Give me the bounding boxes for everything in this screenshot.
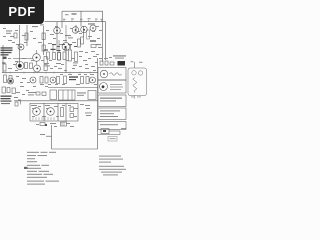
note block lower-left line 3 [1, 101, 12, 102]
wire right rail drop [102, 11, 104, 62]
value label speck 11 [63, 39, 67, 42]
switch S1 [61, 108, 64, 117]
tube socket box [128, 68, 147, 96]
wire driver b [58, 40, 60, 52]
resistor R24 [86, 77, 89, 84]
label top mid [88, 23, 95, 24]
resistor R11 [58, 53, 61, 61]
value label speck 20 [92, 30, 95, 33]
value label speck 3 [80, 18, 83, 21]
value label speck 32 [8, 57, 11, 60]
value label speck 74 [68, 73, 72, 76]
value label speck 109 [12, 41, 15, 44]
wire second supply rail [45, 21, 106, 23]
transistor Q3 [81, 26, 88, 33]
value label speck 24 [98, 46, 102, 49]
value label speck 98 [80, 103, 84, 106]
value label speck 82 [48, 83, 51, 86]
label value 56K [56, 63, 61, 64]
value label speck 33 [13, 63, 16, 66]
value label speck 19 [88, 35, 92, 38]
value label speck 15 [59, 43, 62, 46]
panel divider 3 [65, 103, 67, 121]
value label speck 79 [62, 83, 65, 86]
label gain [8, 40, 12, 41]
value label speck 64 [27, 81, 30, 84]
tube top labels [131, 60, 134, 63]
value label speck 83 [32, 107, 36, 110]
value label speck 42 [66, 59, 69, 62]
resistor R15 [81, 37, 84, 44]
resistor R12 [63, 52, 66, 60]
note text block line 2 [1, 50, 13, 51]
value label speck 44 [79, 55, 82, 58]
rail component ticks [63, 20, 65, 22]
value label speck 13 [72, 41, 76, 44]
resistor R2 [42, 33, 45, 40]
value label speck 85 [46, 107, 49, 110]
label beside note [14, 97, 18, 98]
label drv2 [57, 46, 60, 47]
label R11 value [57, 50, 61, 51]
value label speck 93 [74, 115, 77, 118]
value label speck 46 [88, 57, 91, 60]
label fuse [100, 124, 118, 125]
power box AC [98, 95, 126, 107]
wire drop stage 1 [56, 22, 58, 50]
note right line 3 [99, 162, 111, 163]
legend marker NB [24, 167, 28, 169]
capacitor C6 [7, 88, 10, 93]
value label speck 94 [66, 122, 70, 125]
label corner [40, 134, 45, 135]
legend line 10 [27, 181, 44, 182]
diode D2 [105, 61, 108, 65]
note block lower-left line 4 [1, 103, 10, 104]
resistor R7 [44, 65, 47, 71]
switch box S2 [101, 129, 109, 134]
PDF badge [0, 0, 44, 24]
note right line 4 [99, 166, 124, 167]
value label speck 17 [55, 25, 58, 28]
capacitor C3 [36, 92, 40, 95]
value label speck 75 [78, 73, 81, 76]
wire left drop under badge 2 [26, 25, 28, 46]
wire plug drop [98, 134, 120, 136]
capacitor C4 [42, 92, 46, 96]
legend line 11 [27, 184, 45, 185]
value label speck 60 [91, 50, 95, 53]
value label speck 57 [93, 69, 96, 72]
value label speck 9 [53, 37, 56, 40]
value label speck 68 [40, 83, 44, 86]
terminal strip ticks [32, 117, 34, 120]
wire drop at node B [80, 11, 82, 26]
output box speaker 2 [98, 80, 126, 93]
resistor R1 [25, 33, 28, 40]
resistor R9 [47, 52, 50, 59]
value label speck 8 [50, 33, 54, 36]
resistor R13 [69, 50, 72, 61]
value label speck 49 [91, 65, 95, 68]
wire Q5 collector [65, 25, 67, 42]
value label speck 63 [22, 77, 26, 80]
wire Q7 top [36, 50, 38, 54]
heater resistor [133, 78, 137, 93]
note right line 7 [103, 174, 118, 175]
value label speck 36 [41, 59, 44, 62]
value label speck 6 [101, 18, 104, 21]
legend line 2 [27, 155, 36, 156]
value label speck 100 [86, 107, 90, 110]
power box mains [98, 108, 126, 120]
value label speck 34 [22, 57, 26, 60]
resistor R18 [45, 77, 48, 83]
resistor R6 [44, 57, 47, 64]
resistor R17 [40, 77, 43, 84]
label mains 3 [100, 116, 118, 117]
transistor Q2 [72, 27, 79, 34]
capacitor C1 [3, 57, 7, 59]
value label speck 47 [93, 55, 97, 58]
value label speck 16 [48, 42, 52, 45]
label R9 value [44, 49, 48, 50]
transistor Q7 [33, 54, 41, 62]
note right line 6 [101, 172, 122, 173]
legend line 3 [27, 158, 35, 159]
label panel 1 [31, 105, 37, 106]
power box fuse [98, 122, 126, 130]
value label speck 56 [85, 67, 89, 70]
value label speck 66 [26, 89, 29, 92]
resistor R23 [81, 77, 84, 84]
value label speck 38 [8, 67, 12, 70]
value label speck 58 [79, 50, 83, 53]
value label speck 22 [99, 29, 102, 32]
transformer T2 [59, 90, 76, 100]
value label speck 90 [32, 115, 35, 118]
value label speck 71 [22, 93, 25, 96]
capacitor C2 [91, 45, 96, 48]
label drv5 [74, 46, 77, 47]
value label speck 104 [104, 57, 108, 60]
resistor R5 [30, 63, 33, 69]
transistor Q5 [62, 43, 70, 51]
value label speck 50 [79, 65, 82, 68]
label bias [90, 40, 96, 41]
transistor Q11 [50, 77, 56, 83]
label AC line 1 [100, 98, 122, 99]
label B+ [40, 24, 44, 25]
resistor R8 [3, 64, 6, 71]
note text block line 4 [1, 54, 9, 55]
component small X2 [14, 33, 17, 38]
capacitor C5 [2, 87, 6, 93]
value label speck 76 [84, 73, 87, 76]
value label speck 25 [15, 29, 18, 32]
value label speck 48 [85, 63, 88, 66]
legend line 1 [27, 152, 39, 153]
value label speck 96 [70, 125, 74, 128]
solder point [45, 124, 47, 126]
value label speck 4 [88, 17, 91, 20]
fuse F1 [70, 107, 74, 112]
legend line 9 [27, 177, 47, 178]
label mains 1 [100, 110, 120, 111]
value label speck 21 [97, 37, 100, 40]
label cap value [65, 35, 71, 36]
value label speck 53 [58, 67, 62, 70]
label under badge [32, 26, 38, 27]
wire left border [2, 45, 4, 73]
label R10 value [51, 49, 56, 50]
value label speck 41 [61, 63, 64, 66]
value label speck 86 [54, 105, 58, 108]
label AC line 2 [100, 100, 116, 101]
value label speck 29 [38, 41, 42, 44]
value label speck 31 [24, 41, 27, 44]
value label speck 106 [3, 27, 6, 30]
tube element 2 [138, 71, 142, 75]
label drv3 [62, 44, 65, 45]
value label speck 45 [83, 59, 87, 62]
value label speck 97 [36, 123, 39, 126]
label note mid [28, 92, 36, 93]
wire coupling [75, 25, 77, 33]
component small X1 [15, 102, 18, 106]
note block lower-left line 2 [1, 98, 11, 99]
transistor Q12 [90, 77, 96, 83]
value label speck 55 [72, 67, 75, 70]
wire panel feed [20, 101, 22, 105]
speaker SP2 [100, 83, 108, 91]
value label speck 95 [54, 125, 57, 128]
value label speck 43 [71, 57, 75, 60]
output box speaker 1 [98, 68, 126, 81]
note block lower-left line 1 [1, 96, 12, 97]
junction ticks [5, 72, 7, 74]
value label speck 14 [77, 30, 80, 33]
value label speck 61 [96, 53, 99, 56]
diode D3 [110, 62, 114, 65]
value label speck 101 [85, 112, 92, 115]
note right line 5 [99, 169, 126, 170]
note text block line 3 [1, 52, 12, 53]
wire chassis bottom [52, 148, 98, 150]
resistor R22 [64, 76, 67, 84]
value label speck 81 [94, 83, 97, 86]
value label speck 62 [16, 75, 19, 78]
value label speck 92 [56, 115, 59, 118]
capacitor C8 hatch [61, 122, 67, 126]
transistor Q1 [54, 27, 61, 34]
wire mid horizontal bus [2, 72, 98, 74]
transistor Q4 [90, 25, 96, 31]
control panel outline [30, 103, 78, 121]
resistor R4 [25, 63, 28, 69]
speaker SP1 [100, 70, 108, 78]
label input jack [6, 30, 12, 31]
value label speck 59 [85, 51, 88, 54]
wire top supply rail [62, 10, 103, 12]
label drv6 [64, 49, 67, 50]
value label speck 87 [62, 104, 65, 107]
value label speck 99 [85, 104, 90, 107]
value label speck 27 [30, 30, 33, 33]
terminal box T3 [88, 91, 96, 100]
value label speck 84 [38, 105, 41, 108]
legend line 6 [27, 168, 41, 169]
value label speck 72 [20, 81, 23, 84]
value label speck 108 [10, 35, 14, 38]
value label speck 18 [79, 32, 82, 35]
diode D1 [100, 61, 103, 65]
legend line 5 [27, 165, 40, 166]
label value 1700 [44, 63, 49, 64]
wire input drop [43, 26, 45, 55]
value label speck 103 [99, 57, 102, 60]
value label speck 2 [71, 18, 74, 21]
transistor Q10 [8, 78, 14, 84]
value label speck 78 [55, 83, 58, 86]
value label speck 107 [3, 35, 6, 38]
voice coil [110, 73, 122, 76]
value label speck 10 [60, 32, 63, 35]
value label speck 88 [68, 104, 71, 107]
value label speck 35 [31, 59, 34, 62]
resistor R3 [42, 45, 45, 51]
label drv1 [52, 44, 56, 45]
label panel 2 [45, 105, 50, 106]
wire left drop under badge 1 [19, 25, 21, 66]
resistor R20 [9, 76, 12, 83]
label value 220 [73, 62, 78, 63]
value label speck 23 [95, 25, 99, 28]
terminal box T1 [50, 90, 57, 100]
resistor R19 [4, 75, 7, 83]
label small top [65, 14, 69, 15]
tube bottom tick [134, 96, 136, 99]
value label speck 52 [50, 67, 53, 70]
panel divider 2 [57, 103, 59, 121]
resistor R14 [75, 52, 78, 62]
resistor R25 [78, 39, 81, 47]
legend line 4 [27, 161, 37, 162]
wire lower bus [48, 87, 98, 89]
value label speck 73 [60, 73, 63, 76]
label jack [50, 123, 56, 124]
legend line 8 [27, 174, 42, 175]
note text block line 1 [1, 47, 13, 48]
label transformer [77, 92, 86, 93]
value label speck 5 [95, 18, 98, 21]
value label speck 70 [16, 91, 20, 94]
label 12AX7 [96, 44, 101, 45]
value label speck 89 [74, 107, 78, 110]
field coil lines [110, 84, 122, 86]
pot VR1 [33, 108, 41, 116]
value label speck 102 [86, 114, 91, 117]
value label speck 26 [22, 34, 26, 37]
label loudspeaker [113, 55, 126, 56]
label R7 value [15, 61, 18, 62]
transistor Q6 [16, 62, 24, 70]
wire Q7 bottom [36, 61, 38, 65]
wire second rail drop [105, 22, 107, 60]
label 470K [72, 13, 77, 14]
value label speck 80 [76, 83, 80, 86]
value label speck 105 [109, 56, 112, 59]
value label speck 39 [49, 59, 52, 62]
tube element 1 [132, 71, 136, 75]
transistor Q8 [34, 65, 41, 72]
value label speck 30 [16, 43, 19, 46]
transistor Q13 [18, 44, 24, 50]
value label speck 1 [63, 18, 66, 21]
value label speck 54 [64, 69, 67, 72]
wire drop at node A [61, 11, 63, 28]
resistor R21 [57, 77, 60, 84]
wire bottom bus [14, 100, 98, 102]
fuse F2 [70, 114, 74, 118]
wire driver a [52, 44, 54, 52]
plug P1 [108, 137, 117, 142]
label drv4 [68, 44, 72, 45]
resistor R16 [87, 30, 90, 39]
wire right border vertical [97, 58, 99, 149]
value label speck 65 [20, 85, 24, 88]
resistor R10 [53, 53, 56, 60]
value label speck 12 [70, 27, 73, 30]
value label speck 37 [15, 69, 18, 72]
rectifier block dark [118, 61, 126, 66]
capacitor C7 [12, 88, 16, 94]
value label speck 91 [42, 115, 46, 118]
note right line 2 [99, 159, 123, 160]
legend line 7 [27, 171, 37, 172]
value label speck 40 [54, 65, 57, 68]
label right of switch [121, 127, 126, 130]
wire into chassis corner [46, 135, 52, 137]
value label speck 77 [90, 73, 94, 76]
value label speck 7 [46, 29, 49, 32]
wire chassis left vertical [51, 125, 53, 149]
value label speck 69 [45, 85, 48, 88]
tube pin stem [134, 62, 136, 68]
value label speck 67 [33, 85, 36, 88]
wire driver c [70, 44, 72, 50]
value label speck 51 [95, 61, 98, 64]
jack J1 [40, 123, 45, 126]
transistor Q9 [30, 77, 36, 83]
value label speck 28 [33, 37, 36, 40]
pot VR2 [47, 108, 55, 116]
wire Q3 emitter [83, 26, 85, 37]
panel divider 1 [43, 103, 45, 121]
note right line 1 [99, 156, 121, 157]
label relay dark [69, 76, 78, 77]
label C1 value [2, 62, 6, 63]
wire link [65, 46, 67, 73]
wire to plug [109, 130, 120, 132]
wire input stage h [13, 58, 33, 60]
label mains 2 [100, 113, 114, 114]
